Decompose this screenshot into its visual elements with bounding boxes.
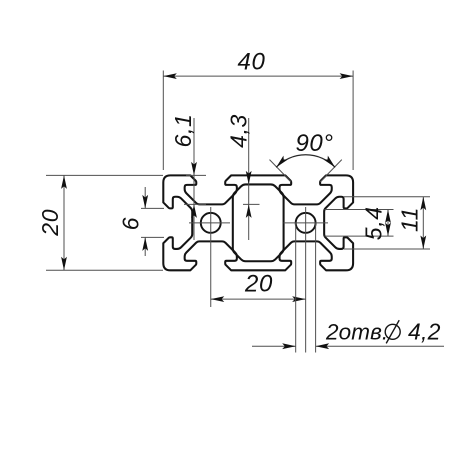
left mounting hole (diam 4,2) (201, 213, 221, 233)
dimension hole diameter: dimension lines with outside arrows (252, 345, 296, 347)
dimension hole diameter: extension lines from hole edges (295, 223, 297, 353)
right mounting hole (diam 4,2) (296, 213, 316, 233)
right hole horizontal centerline (284, 222, 329, 224)
dimension 6,1: extension lines (186, 174, 206, 176)
dimension 90deg: arc with arrows (276, 155, 335, 168)
dimension 40: dimension line with arrows (163, 75, 353, 77)
dimension 6: dimension line with outside arrows (144, 187, 146, 208)
dimension 6,1: leader line with arrows (193, 118, 195, 240)
left hole horizontal centerline (189, 222, 230, 224)
dimension 11: extension lines (344, 196, 430, 198)
svg-text:2отв.: 2отв. (325, 319, 388, 344)
svg-text:4,3: 4,3 (226, 114, 252, 148)
dimension 6: extension lines (141, 207, 164, 209)
dimension 20 left: dimension line with arrows (63, 175, 65, 270)
svg-text:6: 6 (118, 217, 144, 230)
svg-text:5,4: 5,4 (361, 206, 387, 240)
svg-text:11: 11 (397, 207, 423, 232)
dimension 5,4: dimension line with arrows (387, 210, 389, 237)
dimension 4,3: leader line with arrows (248, 118, 250, 240)
central cavity octagon (233, 184, 284, 261)
svg-text:40: 40 (238, 49, 266, 76)
dimension 11: dimension line with arrows (422, 197, 424, 249)
left hole vertical centerline / extension for dim 20 (210, 207, 212, 307)
svg-text:20: 20 (244, 271, 273, 298)
svg-text:6,1: 6,1 (170, 114, 196, 148)
svg-text:20: 20 (37, 209, 63, 237)
dimension 20 bottom: dimension line with arrows (211, 298, 306, 300)
dimension 40: extension lines (162, 71, 164, 171)
dimension 5,4: extension lines (325, 209, 394, 211)
profile outline: 20x40 V-slot extrusion cross-section (163, 175, 353, 270)
dimension 20 left: extension lines (46, 174, 163, 176)
svg-text:4,2: 4,2 (408, 318, 441, 344)
svg-text:90°: 90° (295, 130, 333, 157)
dimension 4,3: extension line (243, 203, 260, 205)
diameter symbol (385, 324, 400, 339)
right hole vertical centerline / extension for dims (305, 207, 307, 353)
dimension 90deg: extension lines (V-groove sides extended) (270, 160, 292, 182)
